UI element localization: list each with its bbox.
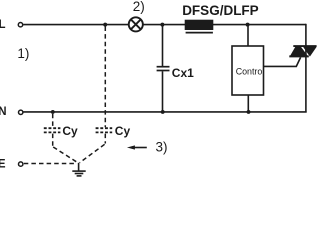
capacitor Cx1 plates (157, 66, 170, 68)
wire L line left segment (23, 24, 129, 26)
lamp 2) (129, 17, 143, 31)
node junction N/Cy1 (51, 110, 55, 114)
svg-text:1): 1) (17, 46, 29, 61)
node junction L/Cy2 (103, 23, 107, 27)
ground bars (72, 170, 85, 172)
wire dashed vertical L to Cy2 (104, 27, 106, 128)
wire dashed Cy1 to earth (52, 134, 54, 146)
wire Cx1 bottom lead (162, 71, 164, 112)
terminal N (19, 110, 23, 114)
wire dashed Cy2 to earth (104, 134, 106, 144)
svg-text:Control: Control (236, 66, 265, 76)
filter block DFSG/DLFP (185, 20, 214, 30)
filter block core underline (186, 32, 213, 34)
wire N line (23, 111, 306, 113)
terminal L (18, 23, 22, 27)
wire E dashed line to earth (24, 163, 75, 165)
svg-text:Cy: Cy (62, 124, 78, 138)
svg-text:DFSG/DLFP: DFSG/DLFP (182, 3, 259, 18)
node junction N/control (247, 110, 251, 114)
triac lower triangle (289, 47, 309, 58)
triac bottom bar (289, 55, 309, 57)
control box U1 (232, 46, 264, 95)
wire L line right segment (213, 24, 307, 26)
arrow 3) pointer (134, 147, 147, 149)
svg-text:3): 3) (156, 140, 168, 155)
svg-text:Cy: Cy (115, 124, 131, 138)
triac top bar (293, 45, 316, 47)
svg-text:E: E (0, 159, 6, 171)
capacitor Cy1 plates (dashed) (44, 127, 61, 129)
wire control bottom lead (247, 95, 249, 112)
ground stem (78, 163, 80, 171)
node junction N/Cx1 (161, 110, 165, 114)
wire L line middle segment (143, 24, 186, 26)
wire triac gate (264, 57, 301, 66)
wire right vertical (triac branch) (305, 24, 307, 113)
capacitor Cy2 plates (dashed) (96, 127, 113, 129)
terminal E (19, 162, 23, 166)
wire control top lead (247, 25, 249, 46)
node junction L/Cx1 (160, 23, 164, 27)
wire dashed N to Cy1 (52, 114, 54, 128)
svg-text:N: N (0, 106, 7, 118)
svg-text:Cx1: Cx1 (172, 66, 194, 80)
svg-text:2): 2) (133, 0, 145, 14)
triac upper triangle (303, 47, 317, 57)
node junction L/control (246, 23, 250, 27)
wire Cx1 top lead (162, 25, 164, 67)
svg-text:L: L (0, 19, 6, 31)
